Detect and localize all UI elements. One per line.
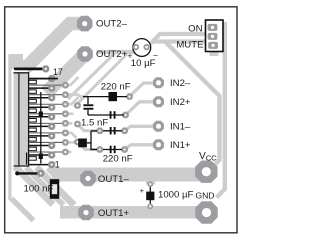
svg-text:10 µF: 10 µF (131, 58, 156, 69)
svg-text:220 nF: 220 nF (103, 153, 133, 164)
svg-text:VCC: VCC (199, 151, 217, 163)
svg-text:17: 17 (53, 67, 63, 77)
svg-text:GND: GND (195, 190, 214, 200)
svg-text:IN2–: IN2– (170, 78, 191, 89)
svg-text:MUTE: MUTE (176, 40, 203, 51)
svg-text:+: + (140, 186, 145, 195)
svg-text:1000 µF: 1000 µF (158, 189, 194, 200)
svg-text:+: + (128, 51, 133, 60)
svg-text:100 nF: 100 nF (24, 183, 54, 194)
svg-text:1: 1 (55, 159, 60, 169)
svg-text:OUT1+: OUT1+ (98, 208, 130, 219)
svg-text:IN2+: IN2+ (170, 97, 191, 108)
svg-text:OUT2–: OUT2– (96, 18, 128, 29)
svg-text:IN1–: IN1– (170, 122, 191, 133)
svg-text:OUT1–: OUT1– (98, 174, 130, 185)
svg-text:ON: ON (188, 24, 202, 35)
svg-text:220 nF: 220 nF (101, 82, 131, 93)
svg-text:–: – (153, 51, 158, 60)
svg-text:OUT2+: OUT2+ (96, 49, 128, 60)
svg-text:IN1+: IN1+ (170, 140, 191, 151)
svg-text:1.5 nF: 1.5 nF (81, 117, 108, 128)
